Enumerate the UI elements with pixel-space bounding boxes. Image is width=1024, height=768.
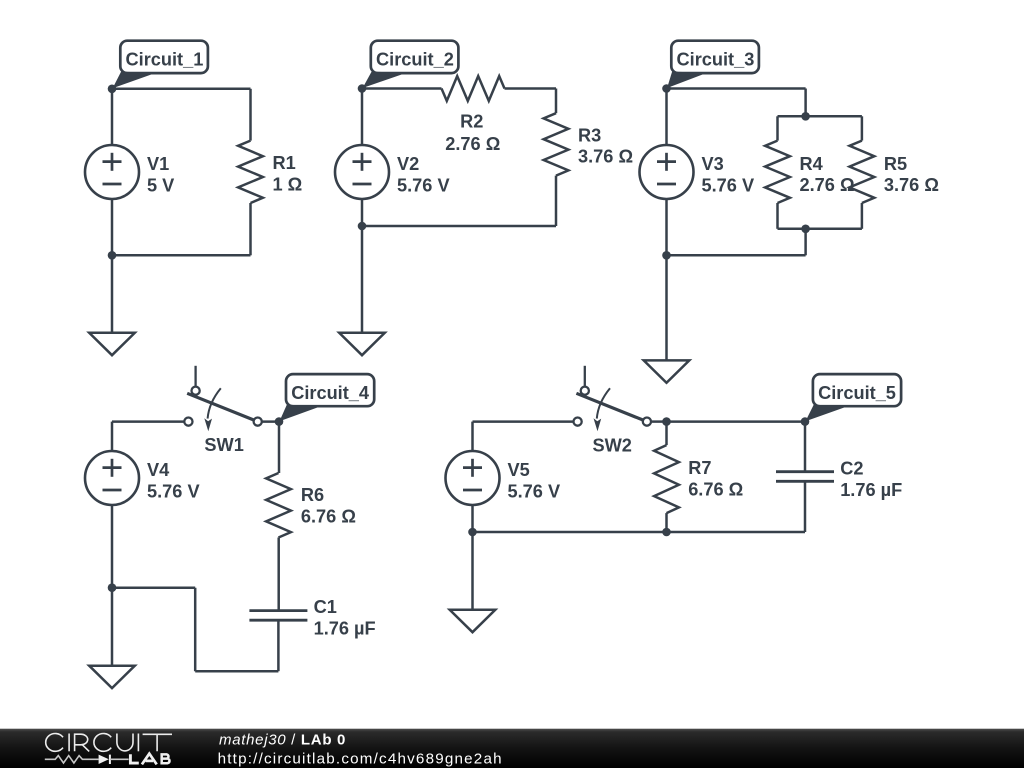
voltage source V4 [85, 451, 139, 505]
resistor R1 [238, 141, 263, 203]
value label R5 3.76 Ohm [884, 154, 939, 195]
ground symbol of circuit 3 [644, 360, 690, 382]
svg-text:V5: V5 [508, 460, 530, 480]
logo CIRCUIT wordmark [46, 734, 172, 752]
svg-text:R2: R2 [460, 112, 483, 132]
wire SW2 to node [652, 420, 667, 423]
label Circuit_1 [113, 41, 208, 89]
value label SW2 [593, 436, 632, 456]
wire V4 top lead [112, 422, 184, 451]
svg-text:5 V: 5 V [147, 175, 174, 195]
svg-text:C2: C2 [840, 459, 863, 479]
logo resistor-diode graphic [45, 755, 129, 764]
wire R4 bottom lead [776, 203, 779, 229]
wire C2 bottom lead [804, 481, 807, 532]
node A1 (top-left junction of circuit 1) [108, 85, 117, 94]
svg-text:R5: R5 [884, 154, 907, 174]
ground symbol of circuit 2 [339, 333, 385, 355]
wire down to parallel top bar [804, 89, 807, 117]
node E5 (circuit 5 node at C2) [801, 417, 810, 426]
bottom wire of circuit 4 [112, 588, 278, 672]
svg-text:1 Ω: 1 Ω [273, 174, 303, 194]
svg-text:R1: R1 [273, 153, 296, 173]
wire down from parallel block [804, 229, 807, 256]
value label V4 5.76 V [147, 460, 200, 501]
switch SW1 right terminal [254, 418, 262, 426]
parallel bottom bar wire [778, 228, 862, 231]
svg-text:3.76 Ω: 3.76 Ω [884, 175, 939, 195]
wire R3 bottom lead [555, 176, 558, 226]
resistor R7 [654, 445, 679, 513]
voltage source V3 [640, 145, 694, 199]
voltage source V2 [335, 145, 389, 199]
switch SW2 right terminal [643, 418, 651, 426]
switch SW1 actuation arrow [204, 388, 221, 431]
wire R7 top lead [665, 422, 668, 446]
svg-text:2.76 Ω: 2.76 Ω [800, 175, 855, 195]
parallel top bar wire [778, 115, 862, 118]
node C3 (top junction of R4 and R5) [801, 112, 810, 121]
switch SW1 lever [187, 393, 253, 420]
wire V3 top lead [665, 89, 668, 146]
svg-text:SW1: SW1 [204, 435, 243, 455]
wire R4 top lead [776, 116, 779, 140]
wire to ground of circuit 2 [361, 226, 364, 333]
wire C2 top lead [804, 422, 807, 472]
wire R5 bottom lead [861, 203, 864, 229]
value label C2 1.76 uF [840, 459, 902, 500]
node B2 (bottom junction of circuit 2) [358, 222, 367, 231]
ground symbol of circuit 5 [450, 610, 496, 632]
wire R6 top lead [278, 422, 281, 473]
value label V3 5.76 V [702, 154, 755, 195]
logo LAB wordmark [130, 754, 169, 765]
switch SW2 lever [576, 393, 642, 420]
svg-text:R7: R7 [688, 458, 711, 478]
value label V1 5 V [147, 154, 174, 195]
switch SW2 actuation arrow [594, 388, 611, 431]
voltage source V5 [446, 451, 500, 505]
ground symbol of circuit 4 [89, 666, 135, 688]
wire V3 bottom lead [665, 199, 668, 255]
wire R5 top lead [861, 116, 864, 140]
wire to ground of circuit 3 [665, 255, 668, 360]
value label SW1 [204, 435, 243, 455]
node A3 (top-left junction of circuit 3) [662, 84, 671, 93]
svg-text:Circuit_1: Circuit_1 [126, 50, 204, 70]
value label R3 3.76 Ohm [578, 125, 633, 166]
circuit 1 top wire from V1 to R1 [112, 88, 251, 91]
wire V2 top lead [361, 89, 364, 146]
svg-text:V1: V1 [147, 154, 169, 174]
value label R6 6.76 Ohm [301, 485, 356, 526]
ground symbol of circuit 1 [89, 333, 135, 355]
value label V5 5.76 V [508, 460, 561, 501]
bottom wire of circuit 3 [667, 254, 806, 257]
svg-text:V2: V2 [397, 154, 419, 174]
node B5 (bottom junction of circuit 5) [468, 528, 477, 537]
svg-text:V3: V3 [702, 154, 724, 174]
wire R2 to R3 [505, 87, 557, 90]
label Circuit_2 [363, 41, 459, 88]
wire R1 bottom lead [249, 203, 252, 255]
value label V2 5.76 V [397, 154, 450, 195]
top wire V2 to R2 [362, 87, 442, 90]
svg-text:Circuit_3: Circuit_3 [677, 50, 755, 70]
label Circuit_4 [280, 374, 375, 421]
svg-text:1.76 µF: 1.76 µF [314, 619, 376, 639]
svg-text:http://circuitlab.com/c4hv689g: http://circuitlab.com/c4hv689gne2ah [218, 750, 503, 767]
svg-text:3.76 Ω: 3.76 Ω [578, 147, 633, 167]
svg-text:SW2: SW2 [593, 436, 632, 456]
node A4 (circuit 4 top node) [275, 417, 284, 426]
switch SW2 top terminal [581, 366, 589, 395]
label Circuit_5 [806, 374, 902, 421]
wire SW1 to node [262, 420, 279, 423]
resistor R5 [850, 141, 875, 203]
wire V5 bottom lead [471, 505, 474, 532]
svg-text:5.76 V: 5.76 V [508, 482, 561, 502]
wire R7 bottom lead [665, 513, 668, 532]
capacitor C1 [249, 611, 307, 621]
svg-text:R4: R4 [800, 154, 824, 174]
bottom wire of circuit 1 [112, 254, 251, 257]
svg-text:Circuit_2: Circuit_2 [376, 50, 454, 70]
footer url [218, 750, 503, 767]
svg-text:5.76 V: 5.76 V [397, 175, 450, 195]
capacitor C2 [776, 472, 834, 482]
svg-text:6.76 Ω: 6.76 Ω [301, 506, 356, 526]
svg-text:R6: R6 [301, 485, 324, 505]
svg-text:mathej30 / LAb 0: mathej30 / LAb 0 [219, 731, 346, 748]
wire C1 bottom lead [277, 620, 280, 671]
value label R7 6.76 Ohm [688, 458, 743, 500]
resistor R4 [765, 141, 790, 203]
wire V5 top lead [473, 422, 574, 451]
wire to ground of circuit 1 [111, 255, 114, 333]
wire V1 top lead [111, 89, 114, 145]
svg-text:5.76 V: 5.76 V [147, 482, 200, 502]
wire V2 bottom lead [361, 199, 364, 226]
svg-text:C1: C1 [314, 597, 337, 617]
wire to ground of circuit 5 [471, 532, 474, 610]
switch SW1 left terminal [184, 418, 192, 426]
value label R2 2.76 Ohm [445, 112, 500, 154]
switch SW1 top terminal [192, 366, 200, 395]
value label R4 2.76 Ohm [800, 154, 855, 195]
wire R6 to C1 [277, 538, 280, 611]
resistor R6 [266, 473, 291, 538]
label Circuit_3 [667, 41, 759, 88]
node B1 (bottom junction of circuit 1) [108, 251, 117, 260]
top wire node to C2 [667, 420, 806, 423]
node A2 (top-left junction of circuit 2) [358, 84, 367, 93]
wire V4 bottom lead [111, 505, 114, 588]
svg-text:Circuit_5: Circuit_5 [818, 383, 896, 403]
resistor R2 [442, 76, 505, 101]
value label R1 1 Ohm [273, 153, 303, 194]
value label C1 1.76 uF [314, 597, 376, 638]
switch SW2 left terminal [574, 418, 582, 426]
bottom wire of circuit 5 [473, 531, 806, 534]
node D3 (bottom junction of R4 and R5) [801, 225, 810, 234]
svg-text:6.76 Ω: 6.76 Ω [688, 480, 743, 500]
wire R3 top lead [555, 89, 558, 114]
wire to ground of circuit 4 [111, 588, 114, 666]
svg-text:5.76 V: 5.76 V [702, 175, 755, 195]
svg-text:V4: V4 [147, 460, 170, 480]
bottom wire of circuit 2 [362, 225, 556, 228]
footer title mathej30 / LAb 0 [219, 731, 346, 748]
svg-text:1.76 µF: 1.76 µF [840, 480, 902, 500]
node B4 (bottom junction of circuit 4) [108, 583, 117, 592]
top wire V3 to parallel block [667, 87, 806, 90]
svg-text:Circuit_4: Circuit_4 [291, 383, 370, 403]
node A5 (circuit 5 top node at R7) [662, 417, 671, 426]
svg-text:2.76 Ω: 2.76 Ω [445, 134, 500, 154]
voltage source V1 [85, 145, 139, 199]
resistor R3 [544, 113, 569, 175]
node B3 (bottom junction of circuit 3) [662, 251, 671, 260]
footer bar [0, 729, 1024, 768]
node F5 (bottom junction at R7) [662, 528, 671, 537]
wire R1 top lead [249, 89, 252, 141]
wire V1 bottom lead [111, 199, 114, 255]
svg-text:R3: R3 [578, 125, 601, 145]
